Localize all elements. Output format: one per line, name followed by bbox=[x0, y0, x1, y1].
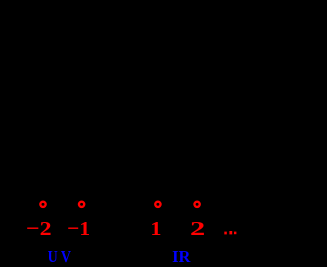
mode marker n=2 bbox=[194, 202, 199, 207]
svg-text:2: 2 bbox=[190, 218, 205, 240]
mode marker n=-2 bbox=[40, 202, 45, 207]
mode marker n=1 bbox=[155, 202, 160, 207]
svg-text:U: U bbox=[48, 248, 58, 266]
svg-text:V: V bbox=[61, 248, 71, 266]
ellipsis dots bbox=[224, 231, 236, 234]
svg-text:−1: −1 bbox=[67, 218, 90, 240]
svg-text:−2: −2 bbox=[26, 218, 52, 240]
svg-text:1: 1 bbox=[150, 218, 161, 240]
svg-text:IR: IR bbox=[172, 247, 191, 266]
mode marker n=-1 bbox=[79, 202, 84, 207]
